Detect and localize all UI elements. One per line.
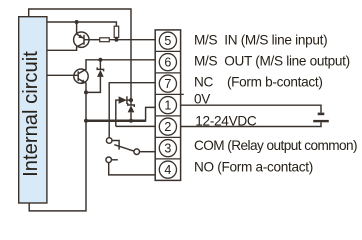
svg-text:NC (Form b-contact): NC (Form b-contact) (194, 75, 323, 90)
svg-text:Internal circuit: Internal circuit (20, 51, 42, 177)
svg-text:0V: 0V (194, 92, 210, 107)
svg-text:NO (Form a-contact): NO (Form a-contact) (194, 159, 313, 174)
svg-text:4: 4 (164, 163, 171, 177)
svg-text:6: 6 (164, 56, 171, 70)
svg-text:3: 3 (164, 142, 171, 156)
svg-text:5: 5 (164, 34, 171, 48)
svg-text:M/S OUT (M/S line output): M/S OUT (M/S line output) (194, 54, 350, 69)
svg-text:2: 2 (164, 120, 171, 134)
svg-text:7: 7 (164, 77, 171, 91)
svg-text:12-24VDC: 12-24VDC (195, 113, 257, 128)
svg-text:M/S IN (M/S line input): M/S IN (M/S line input) (194, 32, 327, 47)
svg-text:COM (Relay output common): COM (Relay output common) (194, 138, 357, 153)
svg-text:1: 1 (164, 99, 171, 113)
